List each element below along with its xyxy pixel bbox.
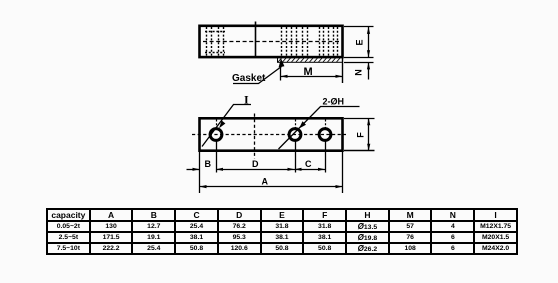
A right arrowhead (336, 185, 343, 188)
svg-text:D: D (252, 159, 259, 169)
svg-text:B: B (205, 159, 212, 169)
D left arrowhead (216, 168, 223, 171)
hole I hidden lines (side view, left) (205, 27, 225, 56)
N arrowhead (367, 62, 370, 69)
dimension C line (295, 169, 326, 171)
svg-text:2-ØH: 2-ØH (323, 97, 345, 107)
dimension A line (200, 186, 343, 188)
extension line hole2 (295, 141, 297, 173)
dimension F extension lines (344, 118, 375, 120)
dimension B line (187, 169, 200, 171)
front view body outline (200, 118, 343, 150)
C left arrowhead (295, 168, 302, 171)
dimension E line (368, 27, 370, 58)
hole 2 centerline tick (295, 120, 297, 128)
top view body outline (200, 26, 343, 57)
svg-text:I: I (244, 93, 249, 107)
extension line right edge (342, 152, 344, 194)
dimension E extension line (344, 26, 374, 28)
A left arrowhead (200, 185, 207, 188)
dimension M line (281, 76, 343, 78)
gasket leader line (233, 67, 282, 84)
hole 3 centerline tick (325, 120, 327, 128)
dimension N extension lines (344, 57, 374, 59)
centerline top view (203, 41, 339, 43)
svg-text:Gasket: Gasket (232, 73, 266, 84)
centerline front view (192, 134, 346, 136)
svg-text:E: E (355, 39, 365, 45)
data table (46, 208, 518, 255)
leader I line (202, 105, 251, 147)
svg-text:C: C (305, 159, 312, 169)
dimension N line (368, 63, 370, 80)
I leader arrowhead (219, 121, 225, 129)
svg-text:M: M (304, 66, 313, 78)
dimension D line (217, 169, 295, 171)
hole 3 hidden lines (side view) (320, 27, 338, 56)
gasket hatch (278, 58, 341, 63)
extension line hole3 (325, 141, 327, 173)
F bottom arrowhead (367, 144, 370, 151)
hole 2 hidden lines (side view) (282, 27, 308, 56)
B arrowhead (193, 168, 200, 171)
M right arrowhead (336, 75, 343, 78)
hole 3 (319, 129, 331, 141)
F top arrowhead (367, 118, 370, 125)
gasket strip outline (278, 57, 343, 62)
hole 2 (289, 129, 301, 141)
E bottom arrowhead (367, 50, 370, 57)
leader 2-OH line (279, 107, 360, 150)
C right arrowhead (318, 168, 325, 171)
extension line hole1 (216, 141, 218, 173)
hole 1 (210, 129, 222, 141)
svg-text:A: A (262, 177, 269, 187)
centerline vertical front view (254, 114, 256, 159)
svg-text:F: F (356, 132, 366, 138)
M left arrowhead (281, 75, 288, 78)
dimension F line (368, 119, 370, 151)
svg-text:N: N (354, 69, 364, 76)
hole 1 centerline tick (216, 120, 218, 128)
E top arrowhead (367, 27, 370, 34)
dimension M extension lines (280, 64, 282, 81)
D right arrowhead (288, 168, 295, 171)
2-OH leader arrowhead (299, 121, 306, 128)
section line vertical (255, 22, 257, 57)
gasket arrowhead (279, 58, 285, 67)
extension line left edge (199, 152, 201, 194)
